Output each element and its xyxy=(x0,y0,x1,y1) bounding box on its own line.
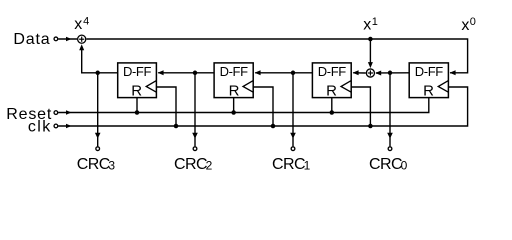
svg-text:R: R xyxy=(423,83,434,100)
svg-text:clk: clk xyxy=(28,118,52,135)
svg-text:D-FF: D-FF xyxy=(220,64,248,79)
svg-text:CRC2: CRC2 xyxy=(174,156,213,173)
svg-text:R: R xyxy=(326,83,337,100)
svg-text:D-FF: D-FF xyxy=(318,64,346,79)
svg-text:D-FF: D-FF xyxy=(415,64,443,79)
svg-text:D-FF: D-FF xyxy=(123,64,151,79)
svg-text:CRC0: CRC0 xyxy=(369,156,408,173)
svg-text:Data: Data xyxy=(13,31,50,48)
svg-text:CRC1: CRC1 xyxy=(272,156,311,173)
svg-text:R: R xyxy=(131,83,142,100)
svg-text:CRC3: CRC3 xyxy=(77,156,116,173)
svg-text:R: R xyxy=(229,83,240,100)
